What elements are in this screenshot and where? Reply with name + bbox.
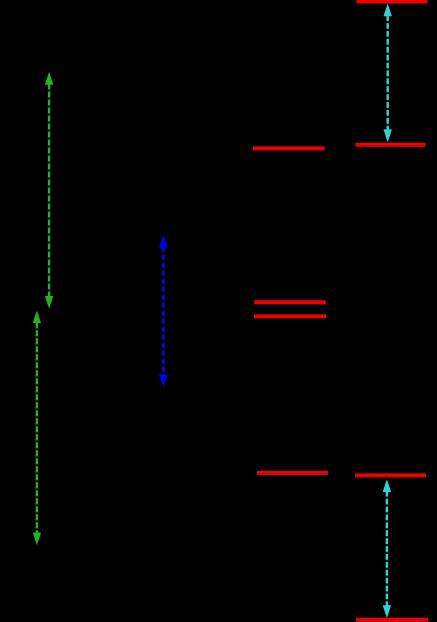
arrow G2 (green dashed double arrow, lower left) (33, 311, 41, 546)
arrow C2 (cyan dashed double arrow, bottom right) (383, 479, 391, 618)
level E4 left segment (253, 146, 325, 150)
arrow C1 (cyan dashed double arrow, top right) (384, 4, 392, 143)
arrow B1 (blue dashed double arrow, middle) (159, 235, 168, 387)
level E3 lower (lower line of middle pair) (254, 314, 326, 318)
level E2 right segment (355, 473, 426, 477)
level E4 right segment (356, 143, 426, 147)
level E-ground (bottom right red line) (356, 618, 428, 622)
arrow G1 (green dashed double arrow, upper left) (45, 72, 53, 309)
level E2 left segment (257, 471, 328, 475)
level E-top (top right red line) (357, 0, 428, 4)
level E3 upper (upper line of middle pair) (254, 300, 325, 304)
